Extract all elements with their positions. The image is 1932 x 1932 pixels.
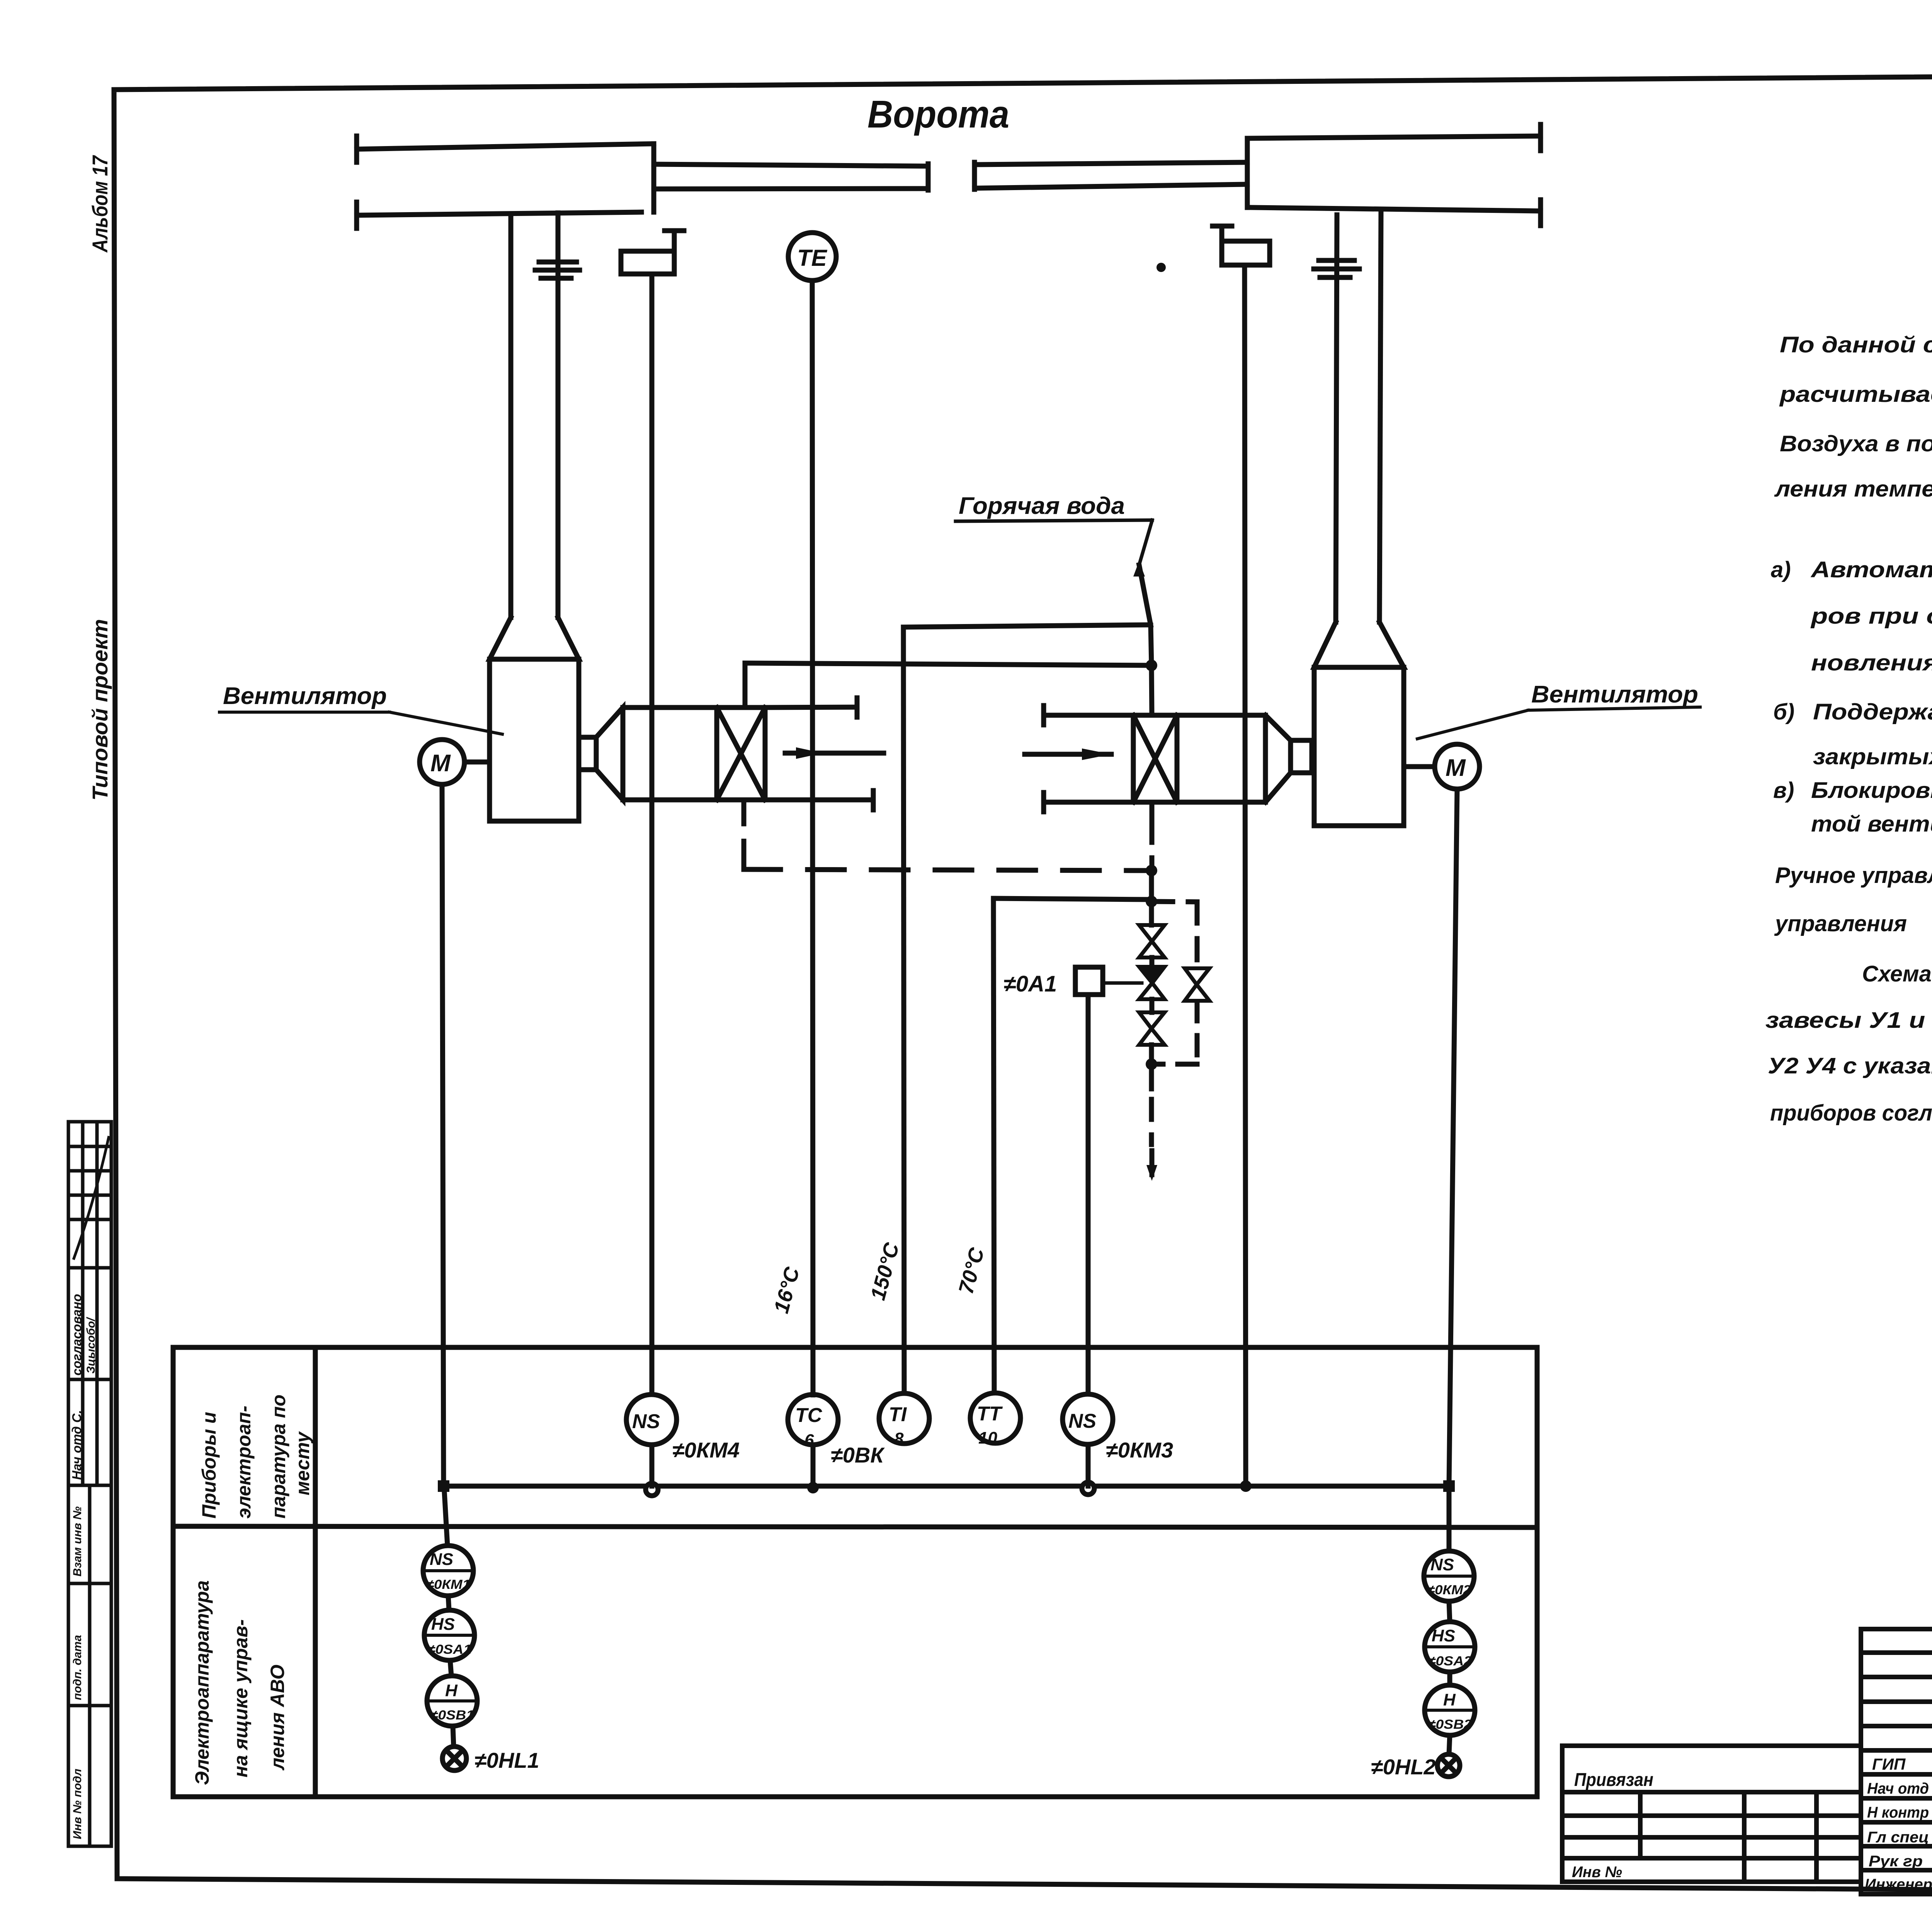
air flow arrow left xyxy=(785,751,884,756)
wire right heater return xyxy=(1150,802,1155,821)
svg-text:Вентилятор: Вентилятор xyxy=(1531,681,1698,708)
valve V2 xyxy=(1150,999,1155,1012)
instrument TI8 xyxy=(879,1393,929,1444)
heater (calorifer) left xyxy=(623,707,765,800)
svg-text:новления температуры воздух: новления температуры воздуха в зоне воро… xyxy=(1811,650,1932,675)
wire drain with arrow xyxy=(1149,1064,1154,1089)
svg-text:Инженер: Инженер xyxy=(1865,1876,1932,1893)
node bus TC xyxy=(807,1482,819,1493)
limit switch SQ left xyxy=(621,251,674,274)
wire right duct opening xyxy=(1044,713,1133,718)
instrument TT10 xyxy=(970,1393,1020,1443)
instrument TC6 0VK xyxy=(788,1395,838,1445)
actuator box 0A1 xyxy=(1075,967,1103,995)
node supply junction xyxy=(1146,660,1157,671)
svg-text:По данной схеме автоматизир: По данной схеме автоматизируется воздушн… xyxy=(1780,332,1932,357)
privyazan box xyxy=(1562,1746,1861,1882)
wire TE to TC xyxy=(812,281,813,1395)
wire TI sense line xyxy=(903,627,904,1393)
svg-text:У2 У4 с указанием в О индек: У2 У4 с указанием в О индекса перед обоз… xyxy=(1768,1053,1932,1078)
instrument NS 0KM4 xyxy=(626,1395,677,1445)
svg-text:приборов согласно таблице: приборов согласно таблице применяемости … xyxy=(1770,1100,1932,1126)
svg-text:ГИП: ГИП xyxy=(1872,1755,1906,1773)
svg-text:Инв №: Инв № xyxy=(1572,1864,1622,1881)
svg-text:Электроаппаратура: Электроаппаратура xyxy=(191,1580,213,1785)
label hot water xyxy=(959,493,1125,519)
svg-text:электроап-: электроап- xyxy=(233,1406,255,1519)
limit switch SQ right xyxy=(1222,241,1270,265)
fan left outlet connector xyxy=(579,737,596,770)
scan speck xyxy=(1156,263,1166,272)
svg-text:а): а) xyxy=(1771,557,1791,582)
gate label VOROTA xyxy=(867,93,1009,136)
wire right fan duct xyxy=(1336,215,1337,622)
svg-text:NS: NS xyxy=(430,1550,453,1569)
fan right body xyxy=(1314,667,1404,826)
svg-text:закрытых воротах: закрытых воротах xyxy=(1813,744,1932,769)
svg-text:Взам инв №: Взам инв № xyxy=(71,1507,84,1577)
node bus M-left xyxy=(438,1480,449,1492)
node bus SQ-right xyxy=(1240,1480,1252,1492)
svg-text:NS: NS xyxy=(1430,1555,1454,1574)
svg-text:Ворота: Ворота xyxy=(867,93,1009,136)
device NS 0KM2 xyxy=(1424,1551,1474,1601)
svg-text:управления: управления xyxy=(1774,911,1907,936)
wire left heater return dashed xyxy=(742,800,747,869)
node bus NS0KM3 open xyxy=(1082,1482,1094,1495)
svg-text:паратура по: паратура по xyxy=(268,1395,289,1519)
wire left gate leaf xyxy=(654,164,928,166)
left gate panel xyxy=(357,144,654,149)
wire right column under bus xyxy=(1447,1492,1452,1551)
svg-text:≠0ВК: ≠0ВК xyxy=(831,1443,885,1467)
svg-text:Н контр: Н контр xyxy=(1867,1804,1929,1821)
svg-text:месту: месту xyxy=(292,1431,313,1495)
svg-text:NS: NS xyxy=(1068,1410,1097,1432)
wire right gate leaf xyxy=(975,162,1247,165)
svg-text:Зцысобо/: Зцысобо/ xyxy=(85,1317,97,1374)
svg-text:≠0КМ1: ≠0КМ1 xyxy=(426,1577,470,1592)
svg-text:Блокировка клапана на теп: Блокировка клапана на теплоносителе кало… xyxy=(1811,778,1932,803)
svg-text:NS: NS xyxy=(632,1410,660,1433)
svg-text:≠0КМ2: ≠0КМ2 xyxy=(1427,1583,1471,1597)
fan right outlet connector xyxy=(1265,715,1291,802)
svg-text:M: M xyxy=(1446,755,1466,781)
svg-text:≠0КМ4: ≠0КМ4 xyxy=(672,1438,740,1462)
svg-text:Горячая вода: Горячая вода xyxy=(959,493,1125,519)
motor M left xyxy=(420,740,464,784)
instrument table xyxy=(173,1347,1537,1797)
bus line xyxy=(444,1484,1449,1489)
fan left body xyxy=(490,659,579,821)
svg-text:≠0SA1: ≠0SA1 xyxy=(427,1642,471,1657)
svg-text:Альбом 17: Альбом 17 xyxy=(88,155,112,253)
svg-text:Привязан: Привязан xyxy=(1574,1770,1653,1790)
svg-text:TI: TI xyxy=(889,1403,907,1426)
lamp HL1 xyxy=(442,1747,466,1770)
svg-text:≠0SB2: ≠0SB2 xyxy=(1428,1717,1472,1732)
svg-text:10: 10 xyxy=(978,1429,997,1447)
node valve bottom junction xyxy=(1146,1058,1157,1070)
revision grid xyxy=(1861,1629,1932,1750)
svg-text:TT: TT xyxy=(977,1403,1003,1425)
svg-text:завесы У1 и действительна: завесы У1 и действительна для воздушно т… xyxy=(1765,1008,1932,1033)
node bus NS0KM4 open xyxy=(646,1483,658,1496)
svg-text:≠0HL2: ≠0HL2 xyxy=(1371,1755,1436,1779)
node bus M-right xyxy=(1443,1480,1455,1492)
motor M right xyxy=(1435,744,1480,789)
right gate panel xyxy=(1247,136,1541,138)
heater (calorifer) right xyxy=(1133,715,1265,802)
svg-text:TC: TC xyxy=(795,1404,823,1427)
svg-text:Нач отд: Нач отд xyxy=(1867,1780,1929,1797)
left margin rotated texts xyxy=(88,155,112,801)
label 150C xyxy=(866,1240,904,1303)
title block xyxy=(1562,1629,1932,1898)
label 16C xyxy=(770,1264,804,1316)
svg-text:Гл спец: Гл спец xyxy=(1867,1829,1929,1846)
wire heater supply branch to left heater xyxy=(745,663,1151,707)
device HS 0SA1 xyxy=(424,1610,474,1660)
svg-text:Схема функциональния выпол: Схема функциональния выполнена для возду… xyxy=(1862,961,1932,986)
svg-text:≠0КМ3: ≠0КМ3 xyxy=(1106,1438,1173,1462)
wire motor right to bus xyxy=(1449,789,1457,1486)
device NS 0KM1 xyxy=(423,1546,473,1596)
wire TT sense line xyxy=(1149,871,1154,901)
label ventilator right xyxy=(1531,681,1698,708)
lamp HL2 xyxy=(1437,1754,1460,1777)
valve V1 xyxy=(1149,901,1154,925)
svg-text:ров при открывании ворот и: ров при открывании ворот и отключение их… xyxy=(1810,604,1932,629)
svg-text:≠0HL1: ≠0HL1 xyxy=(474,1748,539,1772)
row1 label rotated xyxy=(198,1395,313,1519)
wire pipe into right heater xyxy=(1151,665,1152,715)
svg-text:б): б) xyxy=(1773,699,1794,724)
fan right hood xyxy=(1314,622,1404,667)
svg-text:8: 8 xyxy=(894,1429,904,1448)
svg-text:той вентиляторов: той вентиляторов xyxy=(1811,811,1932,837)
svg-text:≠0SA2: ≠0SA2 xyxy=(1428,1654,1472,1668)
left approval stamp table xyxy=(68,1122,111,1846)
svg-text:расчитываемая для предохране: расчитываемая для предохранения от врыва… xyxy=(1779,382,1932,407)
svg-text:H: H xyxy=(1443,1690,1456,1709)
row2 label rotated xyxy=(191,1580,288,1785)
wire left fan duct xyxy=(509,215,514,617)
svg-text:≠0SB1: ≠0SB1 xyxy=(430,1708,474,1723)
explanatory text block xyxy=(1765,251,1932,1126)
wire left column under bus xyxy=(444,1492,447,1546)
air flow arrow right xyxy=(1025,752,1111,757)
instrument NS 0KM3 xyxy=(1063,1394,1113,1444)
node return junction xyxy=(1146,865,1157,876)
svg-text:H: H xyxy=(445,1681,458,1700)
wire left duct opening xyxy=(765,707,857,707)
bypass valve branch dashed xyxy=(1151,901,1197,902)
device H 0SB2 xyxy=(1425,1685,1475,1735)
svg-text:согласовано: согласовано xyxy=(70,1294,84,1376)
wire motor left to bus xyxy=(442,784,444,1486)
svg-text:в): в) xyxy=(1773,778,1794,803)
device HS 0SA2 xyxy=(1425,1622,1475,1672)
svg-text:подп. дата: подп. дата xyxy=(71,1635,84,1700)
svg-text:Приборы и: Приборы и xyxy=(198,1412,220,1519)
svg-text:TE: TE xyxy=(797,245,828,271)
control valve with actuator A1 xyxy=(1150,957,1155,967)
svg-text:на ящике управ-: на ящике управ- xyxy=(230,1619,252,1777)
wire heater supply branch upper xyxy=(903,625,1150,627)
svg-text:Типовой проект: Типовой проект xyxy=(88,619,112,801)
svg-text:HS: HS xyxy=(1432,1626,1455,1645)
wire hot water drop xyxy=(1139,520,1152,565)
svg-text:Автоматическое включение э: Автоматическое включение электродвигател… xyxy=(1810,557,1932,582)
svg-text:Ручное управление вентилятор: Ручное управление вентиляторами осуществ… xyxy=(1775,863,1932,888)
wire A1 to NS 0KM3 xyxy=(1086,995,1091,1394)
svg-text:Рук гр: Рук гр xyxy=(1869,1853,1923,1870)
svg-text:Вентилятор: Вентилятор xyxy=(223,683,387,709)
label ventilator left xyxy=(223,683,387,709)
names grid xyxy=(1861,1750,1932,1894)
wire SQ right down to bus xyxy=(1245,265,1246,1486)
svg-text:Воздуха в помещение при о: Воздуха в помещение при открывании ворот… xyxy=(1780,431,1932,456)
svg-text:ления температуры воздуха: ления температуры воздуха в зоне ворот п… xyxy=(1774,476,1932,502)
capacitor gate sensor left xyxy=(539,260,577,265)
device H 0SB1 xyxy=(427,1676,477,1726)
wire SQ left to NS 0KM4 xyxy=(650,274,655,1395)
thermo sensor TE xyxy=(788,233,836,281)
svg-text:Поддержание заданной темпе: Поддержание заданной температуры в зоне … xyxy=(1813,699,1932,724)
svg-text:Нач отд С.: Нач отд С. xyxy=(70,1410,84,1480)
svg-text:HS: HS xyxy=(431,1615,455,1634)
svg-text:Инв № подл: Инв № подл xyxy=(71,1769,84,1839)
node bypass top junction xyxy=(1146,896,1157,907)
capacitor gate sensor right xyxy=(1319,258,1354,263)
fan left hood xyxy=(490,617,579,659)
svg-text:ления АВО: ления АВО xyxy=(267,1665,288,1770)
label 70C xyxy=(954,1245,989,1296)
svg-text:≠0А1: ≠0А1 xyxy=(1003,971,1057,997)
svg-text:M: M xyxy=(430,750,451,777)
